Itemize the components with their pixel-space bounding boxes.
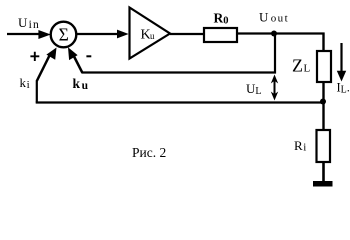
summing junction U1 sigma xyxy=(51,22,77,48)
voltage UL double-headed arrow xyxy=(274,79,276,96)
wire R0 to top-right corner xyxy=(237,32,325,34)
junction dot at ZL bottom xyxy=(320,99,326,105)
input arrowhead xyxy=(38,30,50,39)
ku arrowhead xyxy=(68,47,78,60)
ground xyxy=(313,181,333,187)
wire ku diagonal into sigma xyxy=(72,53,83,74)
wire current feedback bottom horizontal xyxy=(36,101,323,103)
arrowhead into amplifier xyxy=(117,30,129,39)
load impedance ZL xyxy=(317,51,331,82)
wire junction down to feedback line xyxy=(274,34,276,74)
resistor Ri xyxy=(317,130,331,162)
svg-text:Uout: Uout xyxy=(259,10,289,25)
wire voltage feedback horizontal ku line xyxy=(82,71,276,73)
wire amplifier to R0 xyxy=(170,33,204,35)
wire current feedback vertical left xyxy=(36,81,38,103)
wire ki diagonal into sigma xyxy=(37,55,50,82)
wire input line xyxy=(7,33,40,35)
wire top-right corner down to ZL xyxy=(322,33,324,51)
junction dot at Uout node xyxy=(271,31,277,37)
minus sign xyxy=(86,55,91,57)
wire junction to Ri xyxy=(322,102,324,130)
plus sign xyxy=(30,52,39,61)
wire sigma to amplifier xyxy=(77,33,119,35)
ki arrowhead xyxy=(46,48,56,60)
svg-text:Σ: Σ xyxy=(59,24,69,44)
wire ZL bottom to junction xyxy=(322,83,324,101)
op-amp amplifier Ku triangle xyxy=(130,8,171,59)
wire Ri bottom to ground xyxy=(322,163,325,181)
resistor R0 xyxy=(204,28,237,42)
svg-text:Рис. 2: Рис. 2 xyxy=(132,145,166,160)
current IL arrow xyxy=(340,43,342,72)
